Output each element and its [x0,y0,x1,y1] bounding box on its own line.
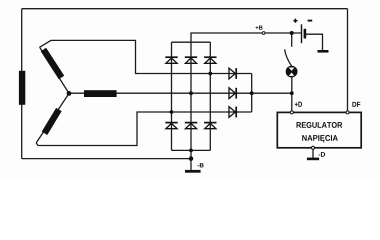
diode D3 (bridge positive, right) [204,57,216,63]
wire: phase 1 from coil tip to bridge [40,40,252,73]
node: phase 3 to bridge junction [170,110,174,114]
battery positive plate [301,24,303,43]
wire: right drop to DF terminal [347,9,349,111]
node: phase 2 to bridge junction [189,91,193,95]
battery negative plate [304,29,307,39]
node: -B junction [189,156,194,161]
diode D8 (trio, phase 2) [229,88,236,99]
node: bottom bus junction [189,149,193,153]
wire: switch stub from +B junction [291,33,293,47]
wire: phase 2 from star coil to bridge and +D line [69,92,292,94]
wire: phase 3 from coil tip to bridge [36,112,252,146]
node: star point [67,91,72,96]
wire: bridge vertical left [171,42,173,150]
wire: bridge bottom bus [172,149,211,151]
diode D2 (bridge positive, middle) [185,57,197,63]
diode D6 (bridge negative, right) [204,123,216,129]
wire: diode trio output bus [251,74,253,113]
ground (battery) [318,50,329,53]
terminal -D (circle on regulator bottom) [312,146,315,149]
switch blade (ignition switch, open) [285,49,292,66]
ground (-D) [307,158,319,161]
indicator lamp [286,66,298,78]
label -D [318,152,325,157]
wire: coil L1 axis lead [40,47,69,93]
diode D1 (bridge positive, left) [165,57,177,63]
wire: left frame (rotor circuit) [21,9,23,159]
node: phase 1 to bridge junction [208,72,212,76]
label battery + [293,19,297,23]
diode D5 (bridge negative, middle) [185,123,197,129]
stator coil L3 (lower-left diagonal bar) [45,110,59,134]
node: trio bus junction [250,91,254,95]
wire: lamp to +D node and regulator [291,77,293,111]
label +B [256,26,263,30]
label battery - [308,20,313,22]
diode D4 (bridge negative, left) [165,123,177,129]
wire: +B terminal to battery junction [265,32,301,34]
node: battery / switch junction [290,31,294,35]
wire: coil L3 axis lead [36,93,69,142]
label +D [295,102,302,107]
stator coil L1 (upper-left diagonal bar) [43,50,61,78]
diode D7 (trio, phase 1) [229,68,236,79]
wire: +B feed from top bus [191,33,262,42]
label -B [198,163,204,167]
ground (-B) [185,170,201,173]
label DF [352,102,360,107]
wire: -D terminal to ground [312,149,314,157]
terminal +D (circle on regulator) [290,111,293,114]
wire: bridge vertical middle [190,42,192,150]
node: +D lamp junction [290,91,294,95]
diode D9 (trio, phase 3) [229,107,236,118]
wire: bottom bus to -B ground [190,150,192,170]
wire: battery negative lead [306,34,323,50]
wire: bridge top bus [172,41,211,43]
terminal DF (circle on regulator) [346,111,349,114]
terminal +B (circle) [262,32,265,35]
label NAPIECIA [302,135,338,143]
wire: bottom wire to -B junction [22,158,191,160]
regulator box U1 [277,112,361,147]
label REGULATOR [296,122,342,128]
stator coil L2 (horizontal bar) [84,90,117,97]
wire: bridge vertical right [209,42,211,150]
wire: top wire from rotor to DF [22,8,348,10]
rotor field winding bar [19,71,25,105]
